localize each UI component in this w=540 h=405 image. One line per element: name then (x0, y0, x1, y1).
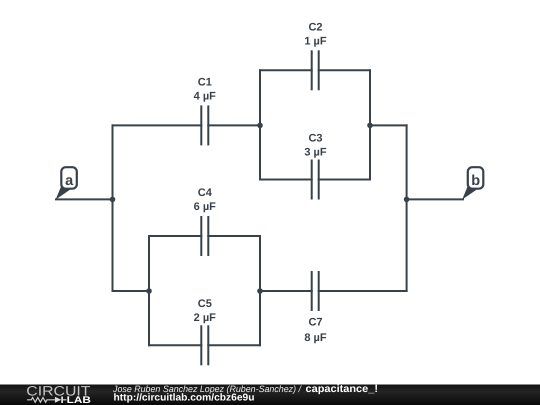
svg-text:C3: C3 (308, 133, 322, 145)
junction node C2C3-right (367, 123, 373, 129)
label C3 (304, 133, 327, 159)
wire right vertical (406, 125, 408, 291)
svg-text:C2: C2 (308, 22, 322, 34)
wire top branch left of C1 (113, 124, 202, 126)
label C7 (304, 317, 327, 344)
wire C2 right (319, 69, 370, 71)
junction node b-right (404, 197, 410, 203)
wire C2 left (260, 69, 312, 71)
wire node to right vertical (370, 124, 407, 126)
label C2 (304, 22, 327, 48)
svg-text:3 µF: 3 µF (304, 147, 327, 159)
svg-text:b: b (471, 173, 480, 189)
capacitor C5 (201, 326, 208, 364)
capacitor C1 (201, 106, 208, 144)
svg-text:C5: C5 (198, 298, 212, 310)
capacitor C2 (312, 51, 319, 89)
svg-text:2 µF: 2 µF (194, 312, 217, 324)
wire a to left junction (56, 198, 113, 200)
junction node C4C5-left (146, 288, 152, 294)
svg-text:LAB: LAB (67, 395, 91, 405)
wire C4C5 loop left vertical (148, 236, 150, 345)
wire C4 right (208, 235, 260, 237)
svg-text:C4: C4 (198, 187, 213, 199)
capacitor C4 (201, 217, 208, 255)
svg-text:capacitance_!: capacitance_! (306, 383, 379, 395)
junction node a-left (110, 197, 116, 203)
svg-text:http://circuitlab.com/cbz6e9u: http://circuitlab.com/cbz6e9u (114, 393, 255, 404)
label C4 (194, 187, 217, 213)
footer bar (0, 385, 540, 405)
terminal b (462, 167, 483, 199)
svg-text:C1: C1 (198, 77, 212, 89)
logo resistor (27, 398, 55, 403)
wire C2C3 loop right vertical (369, 70, 371, 179)
svg-text:4 µF: 4 µF (194, 91, 217, 103)
wire C4 left (149, 235, 201, 237)
label C5 (194, 298, 217, 324)
svg-text:1 µF: 1 µF (304, 36, 327, 48)
capacitor C3 (312, 161, 319, 199)
wire bottom branch to C4C5 loop (113, 290, 150, 292)
svg-text:6 µF: 6 µF (194, 201, 217, 213)
svg-text:8 µF: 8 µF (304, 332, 327, 344)
svg-text:C7: C7 (308, 317, 322, 329)
junction node C1-C2C3 (257, 123, 263, 129)
logo diode (55, 397, 67, 403)
svg-text:a: a (65, 173, 74, 189)
wire left vertical (112, 125, 114, 291)
wire C7 to right vertical (319, 290, 407, 292)
wire C5 right (208, 344, 260, 346)
wire C3 right (319, 179, 370, 181)
wire C4C5 loop right vertical (259, 236, 261, 345)
wire C2C3 loop left vertical (259, 70, 261, 179)
wire right junction to b (407, 198, 463, 200)
wire C3 left (260, 179, 312, 181)
wire C1 to node (208, 124, 260, 126)
wire node to C7 (260, 290, 312, 292)
wire C5 left (149, 344, 201, 346)
terminal a (56, 167, 77, 199)
junction node C4C5-right (257, 288, 263, 294)
label C1 (194, 77, 217, 103)
capacitor C7 (312, 272, 319, 310)
